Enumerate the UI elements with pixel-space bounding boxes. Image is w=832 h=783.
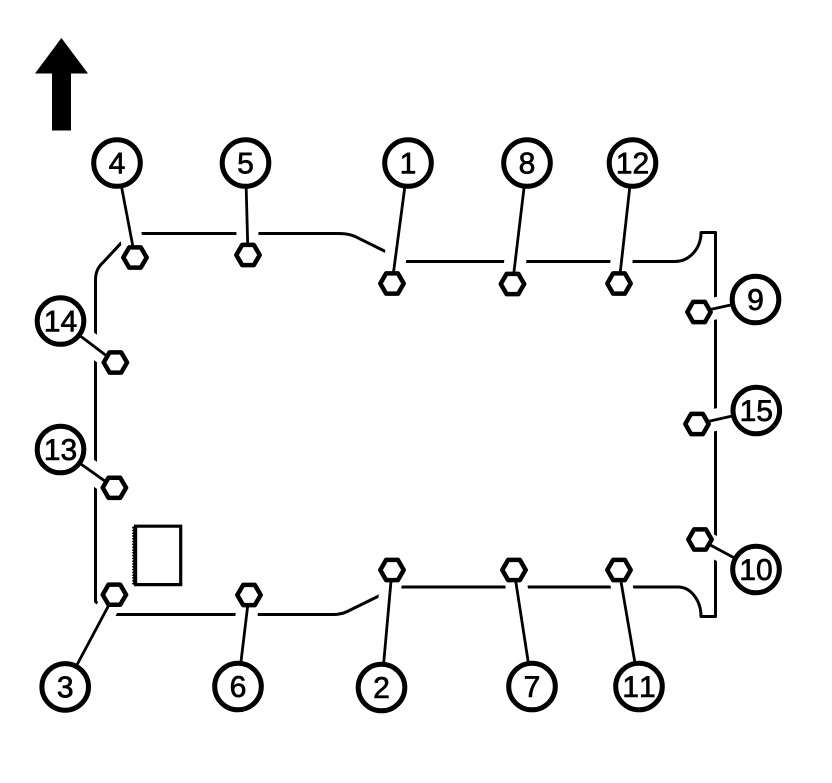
leader line 2 bbox=[382, 570, 393, 688]
leader line white underlays bbox=[61, 163, 757, 688]
hex bolt 1 bbox=[380, 273, 403, 293]
callout circle 2 bbox=[358, 664, 405, 711]
leader line 13 bbox=[61, 450, 115, 488]
leader line 11 bbox=[619, 570, 639, 687]
hex bolt 11 bbox=[607, 560, 630, 580]
oil pan outline bbox=[96, 233, 716, 617]
leader line 15 bbox=[697, 411, 756, 425]
hex bolt 4 bbox=[123, 247, 146, 267]
hex bolt 10 bbox=[688, 529, 711, 549]
callout circle 1 bbox=[385, 140, 432, 187]
callout circle 13 bbox=[37, 426, 84, 473]
leader line 1 bbox=[392, 163, 408, 284]
callout circle 11 bbox=[616, 663, 663, 710]
sealant patch rectangle bbox=[136, 526, 181, 584]
hex bolt 13 bbox=[103, 478, 126, 498]
leader line 8 bbox=[513, 163, 528, 284]
callout circle 9 bbox=[732, 276, 779, 323]
hex bolt 9 bbox=[687, 302, 710, 322]
hex bolt 6 bbox=[237, 585, 260, 605]
callout circle 3 bbox=[42, 664, 89, 711]
hex bolt 14 bbox=[104, 352, 127, 372]
hex bolt 7 bbox=[502, 560, 525, 580]
hex bolt 5 bbox=[236, 245, 259, 265]
hex bolt 12 bbox=[607, 273, 630, 293]
callout circle 14 bbox=[37, 298, 84, 345]
callout circle 5 bbox=[222, 140, 269, 187]
callout circle 8 bbox=[504, 140, 551, 187]
leader line 5 bbox=[246, 163, 249, 255]
callout circle 4 bbox=[94, 140, 141, 187]
hex bolt 8 bbox=[501, 274, 524, 294]
hex bolt 3 bbox=[103, 585, 126, 605]
leader line 3 bbox=[65, 595, 114, 687]
hex bolt 2 bbox=[380, 560, 403, 580]
serrated edge of sealant patch bbox=[133, 526, 135, 584]
leader line 9 bbox=[699, 300, 756, 313]
callout circle 6 bbox=[215, 663, 262, 710]
callout circle 10 bbox=[733, 546, 780, 593]
leader line 4 bbox=[117, 163, 135, 258]
leader line 7 bbox=[514, 570, 532, 687]
leader line 6 bbox=[238, 595, 249, 687]
callout circle 7 bbox=[509, 663, 556, 710]
callout circle 15 bbox=[733, 387, 780, 434]
leader line 12 bbox=[619, 163, 633, 284]
front direction arrow bbox=[35, 38, 88, 131]
leader line 10 bbox=[700, 540, 756, 570]
leader line 14 bbox=[61, 321, 116, 363]
callout circle 12 bbox=[609, 140, 656, 187]
hex bolt 15 bbox=[685, 414, 708, 434]
